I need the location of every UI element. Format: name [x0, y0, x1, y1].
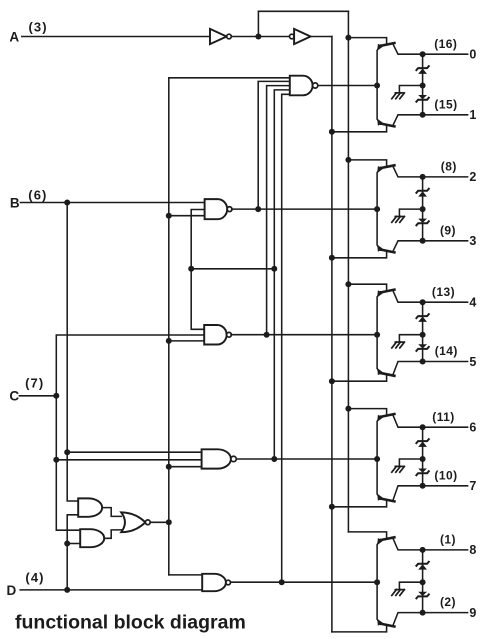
node output 7 — [420, 483, 426, 489]
nand gate N4 — [202, 449, 237, 468]
node N3 in3 tap — [166, 338, 172, 344]
node N4 in2 tap — [53, 457, 59, 463]
node D tap — [64, 587, 70, 593]
svg-text:(14): (14) — [435, 344, 458, 358]
node N4 in1 tap — [64, 449, 70, 455]
svg-text:(4): (4) — [25, 570, 44, 585]
node base tap Q4 on A-bar rail — [345, 281, 351, 287]
node emitter feed cell 2/3 — [374, 206, 380, 212]
svg-text:(15): (15) — [434, 97, 457, 111]
node N4 in3 tap — [166, 464, 172, 470]
output digit 1 — [469, 108, 476, 122]
wire rail A — [331, 37, 333, 632]
zener diode upper cell 6/7 — [416, 439, 428, 447]
wire N1 output — [318, 85, 377, 87]
wire N3 output — [231, 334, 377, 336]
svg-text:(13): (13) — [432, 285, 455, 299]
svg-text:(11): (11) — [432, 410, 454, 424]
svg-text:4: 4 — [469, 296, 476, 310]
wire G3 output to NOR rail — [150, 521, 169, 523]
node zener midpoint cell 6/7 — [420, 456, 426, 462]
pin label (9) — [440, 223, 456, 237]
wire zener chain cell 8/9 — [422, 550, 424, 613]
svg-text:1: 1 — [469, 108, 476, 122]
zener diode upper cell 8/9 — [416, 562, 428, 570]
svg-text:functional block diagram: functional block diagram — [15, 612, 246, 634]
node base tap Q5 on A rail — [329, 378, 335, 384]
wire N1 input 2 — [258, 81, 290, 209]
transistor Q4 — [377, 290, 422, 303]
wire N1 input 3 — [267, 86, 290, 335]
svg-text:(2): (2) — [440, 595, 456, 609]
output digit 8 — [469, 543, 476, 557]
wire zener chain cell 2/3 — [422, 177, 424, 241]
wire D input — [20, 589, 202, 591]
svg-text:(9): (9) — [440, 223, 456, 237]
node N4 out to N1 — [271, 456, 277, 462]
nand gate N3 — [204, 325, 231, 345]
svg-text:B: B — [10, 195, 20, 210]
pin label (14) — [435, 344, 458, 358]
wire output 8 — [423, 549, 468, 551]
pin label (11) — [432, 410, 454, 424]
pin label (13) — [432, 285, 455, 299]
node N5 out to N1 — [279, 579, 285, 585]
wire output 1 — [423, 114, 468, 116]
zener diode lower cell 8/9 — [416, 592, 428, 599]
and gate G2 — [80, 529, 104, 547]
node C tap — [53, 393, 59, 399]
transistor Q7 — [377, 486, 422, 502]
svg-text:9: 9 — [469, 606, 476, 620]
node output 9 — [420, 610, 426, 616]
wire G1 output — [102, 508, 121, 517]
nor gate G3 — [121, 512, 150, 532]
svg-text:(3): (3) — [28, 20, 47, 35]
wire emitter rail cell 2/3 — [376, 173, 378, 245]
nand gate N2 — [205, 199, 232, 219]
node zener midpoint cell 4/5 — [420, 332, 426, 338]
node base tap Q0 on A-bar rail — [345, 35, 351, 41]
node N3 out to N1 — [264, 332, 270, 338]
svg-text:8: 8 — [469, 543, 476, 557]
nand gate N1 — [290, 76, 318, 96]
transistor Q8 — [377, 537, 422, 550]
inverter U2 — [290, 29, 311, 44]
output digit 3 — [469, 234, 476, 248]
node emitter feed cell 8/9 — [374, 579, 380, 585]
node base tap Q2 on A-bar rail — [345, 157, 351, 163]
wire B input — [20, 202, 204, 204]
pin label (1) — [440, 533, 456, 547]
wire base feed Q5 — [332, 376, 387, 381]
wire N2 input 2 chain — [191, 210, 204, 330]
wire output 5 — [423, 361, 468, 363]
wire chain to N4 output — [191, 268, 274, 270]
wire N1 input 5 — [282, 94, 290, 582]
zener diode lower cell 6/7 — [416, 469, 428, 476]
wire output 9 — [423, 612, 468, 614]
wire N3 input 3 — [169, 340, 204, 342]
caption functional block diagram — [15, 612, 246, 634]
wire C rail — [56, 335, 204, 530]
input label A — [9, 30, 19, 45]
zener diode lower cell 0/1 — [416, 95, 428, 102]
wire output 0 — [423, 53, 468, 55]
transistor Q1 — [377, 115, 422, 127]
node emitter feed cell 6/7 — [374, 456, 380, 462]
wire D rail — [67, 515, 78, 590]
zener diode upper cell 4/5 — [416, 314, 428, 322]
node output 8 — [420, 547, 426, 553]
wire base feed Q2 — [348, 160, 386, 165]
node output 3 — [420, 238, 426, 244]
wire U1 output — [231, 36, 289, 38]
wire base feed Q1 — [332, 126, 387, 131]
node output 6 — [420, 424, 426, 430]
wire NOR rail — [168, 78, 170, 575]
wire output 6 — [423, 426, 468, 428]
wire base feed Q6 — [348, 409, 386, 414]
node base tap Q7 on A rail — [329, 504, 335, 510]
wire G2 output — [104, 530, 121, 538]
input label B — [10, 195, 20, 210]
wire A-bar bypass riser — [258, 11, 348, 36]
svg-text:5: 5 — [469, 355, 476, 369]
wire N1 input 4 — [274, 90, 290, 459]
node zener midpoint cell 0/1 — [420, 83, 426, 89]
node zener midpoint cell 8/9 — [420, 579, 426, 585]
pin label (15) — [434, 97, 457, 111]
wire base feed Q3 — [332, 252, 387, 257]
wire N4 input 2 — [56, 459, 201, 461]
node chain junction — [188, 266, 194, 272]
wire B rail — [67, 203, 78, 502]
wire base feed Q9 — [332, 627, 387, 632]
wire D tap to G2 — [67, 543, 80, 545]
wire base feed Q7 — [332, 501, 387, 506]
node output 0 — [420, 51, 426, 57]
ground cell 6/7 — [392, 459, 423, 472]
svg-text:0: 0 — [469, 48, 476, 62]
svg-text:(10): (10) — [434, 468, 457, 482]
wire output 4 — [423, 301, 468, 303]
wire output 7 — [423, 485, 468, 487]
inverter U1 — [210, 29, 231, 44]
output digit 4 — [469, 296, 476, 310]
wire N4 input 1 — [67, 451, 201, 453]
node zener midpoint cell 2/3 — [420, 206, 426, 212]
ground cell 2/3 — [392, 209, 423, 222]
wire output 3 — [423, 240, 468, 242]
input label D — [7, 583, 17, 598]
wire NOR rail to N1 input — [169, 77, 290, 79]
svg-text:2: 2 — [469, 170, 476, 184]
wire zener chain cell 0/1 — [422, 54, 424, 115]
svg-text:(16): (16) — [434, 37, 457, 51]
node NOR rail source — [166, 519, 172, 525]
node N2 in3 tap — [166, 213, 172, 219]
pin label (3) — [28, 20, 47, 35]
node chain on N4 vertical — [271, 266, 277, 272]
wire base feed Q4 — [348, 284, 386, 289]
zener diode upper cell 2/3 — [416, 189, 428, 197]
output digit 9 — [469, 606, 476, 620]
output digit 2 — [469, 170, 476, 184]
wire base feed Q0 — [348, 38, 386, 43]
wire N2 input 3 — [169, 215, 205, 217]
pin label (7) — [25, 375, 44, 390]
node output 2 — [420, 174, 426, 180]
node emitter feed cell 0/1 — [374, 83, 380, 89]
node B tap — [64, 200, 70, 206]
pin label (6) — [28, 188, 47, 203]
wire N2 output — [232, 208, 378, 210]
wire NOR rail to N5 input — [169, 574, 202, 576]
wire emitter rail cell 6/7 — [376, 422, 378, 494]
wire A input — [22, 36, 210, 38]
svg-text:(8): (8) — [441, 160, 457, 174]
nand gate N5 — [202, 574, 230, 591]
output digit 0 — [469, 48, 476, 62]
transistor Q5 — [377, 362, 422, 376]
svg-text:A: A — [9, 30, 19, 45]
svg-text:(6): (6) — [28, 188, 47, 203]
node base tap Q3 on A rail — [329, 255, 335, 261]
wire N4 input 3 — [169, 466, 202, 468]
transistor Q3 — [377, 241, 422, 253]
wire emitter rail cell 4/5 — [376, 297, 378, 368]
pin label (8) — [441, 160, 457, 174]
and gate G1 — [78, 498, 102, 516]
node output 5 — [420, 359, 426, 365]
node emitter feed cell 4/5 — [374, 332, 380, 338]
output digit 7 — [469, 479, 476, 493]
svg-text:6: 6 — [469, 421, 476, 435]
node after U1 — [255, 34, 261, 40]
node base tap Q6 on A-bar rail — [345, 406, 351, 412]
node output 4 — [420, 299, 426, 305]
transistor Q0 — [377, 43, 422, 54]
wire C input — [19, 395, 56, 397]
node N2 out to N1 — [255, 206, 261, 212]
wire base feed Q8 — [348, 532, 386, 537]
zener diode lower cell 4/5 — [416, 344, 428, 351]
wire zener chain cell 6/7 — [422, 427, 424, 486]
ground cell 4/5 — [392, 335, 423, 348]
zener diode upper cell 0/1 — [416, 66, 428, 74]
output digit 6 — [469, 421, 476, 435]
node base tap Q1 on A rail — [329, 129, 335, 135]
pin label (4) — [25, 570, 44, 585]
transistor Q2 — [377, 165, 422, 177]
wire zener chain cell 4/5 — [422, 302, 424, 361]
input label C — [9, 389, 19, 404]
svg-text:3: 3 — [469, 234, 476, 248]
node output 1 — [420, 112, 426, 118]
transistor Q9 — [377, 613, 422, 627]
svg-text:(1): (1) — [440, 533, 456, 547]
svg-text:C: C — [9, 389, 19, 404]
pin label (16) — [434, 37, 457, 51]
pin label (2) — [440, 595, 456, 609]
wire N4 output — [237, 458, 377, 460]
zener diode lower cell 2/3 — [416, 219, 428, 226]
svg-text:7: 7 — [469, 479, 476, 493]
ground cell 0/1 — [392, 86, 423, 99]
ground cell 8/9 — [392, 582, 423, 595]
output digit 5 — [469, 355, 476, 369]
wire U2 output to A rail — [311, 36, 332, 38]
wire emitter rail cell 8/9 — [376, 545, 378, 619]
wire output 2 — [423, 176, 468, 178]
wire rail A-bar — [347, 11, 349, 532]
svg-text:D: D — [7, 583, 17, 598]
wire N5 output — [230, 581, 377, 583]
node D rail tap to G2 — [64, 541, 70, 547]
pin label (10) — [434, 468, 457, 482]
svg-text:(7): (7) — [25, 375, 44, 390]
wire emitter rail cell 0/1 — [376, 51, 378, 119]
transistor Q6 — [377, 414, 422, 427]
